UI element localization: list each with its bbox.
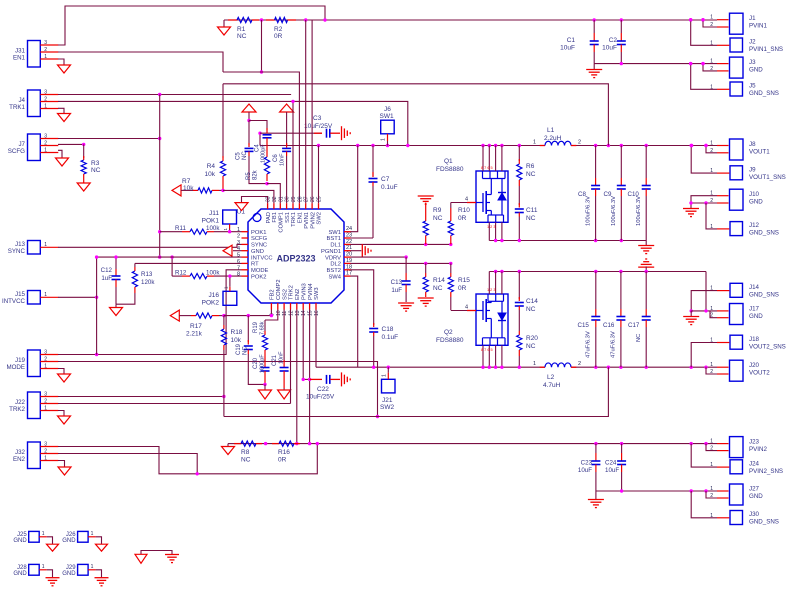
svg-text:1: 1	[710, 439, 713, 445]
svg-text:R7: R7	[182, 178, 191, 185]
svg-text:R5: R5	[246, 172, 252, 180]
svg-text:NC: NC	[243, 346, 249, 355]
svg-text:PVIN2_SNS: PVIN2_SNS	[749, 468, 783, 475]
svg-text:FDS8880: FDS8880	[436, 166, 464, 173]
GND1 bus	[489, 240, 646, 242]
wire PAD ground dogleg	[242, 197, 268, 204]
wire BST2 row to C18	[351, 270, 374, 325]
earth at GND1 bus end	[645, 241, 647, 246]
capacitor C20 (1000pF)	[264, 354, 266, 368]
svg-text:J27: J27	[749, 486, 760, 493]
svg-text:2.2uH: 2.2uH	[544, 135, 562, 142]
svg-text:1: 1	[237, 227, 240, 233]
svg-text:J8: J8	[749, 141, 756, 148]
ground J4.1	[58, 108, 64, 113]
svg-text:POK2: POK2	[251, 274, 266, 280]
svg-text:4: 4	[237, 246, 240, 252]
svg-text:4: 4	[465, 197, 468, 203]
svg-text:C3: C3	[313, 115, 322, 122]
svg-text:16: 16	[314, 310, 320, 316]
svg-text:2.21k: 2.21k	[186, 331, 203, 338]
resistor R6 (NC)	[518, 146, 520, 162]
earth at J17	[690, 311, 692, 316]
Q1 gate wire with pin 4	[451, 202, 467, 204]
wire RT row	[135, 262, 242, 264]
svg-text:FDS8880: FDS8880	[436, 337, 464, 344]
svg-text:SW1: SW1	[328, 230, 341, 236]
svg-text:R8: R8	[241, 449, 250, 456]
svg-text:29: 29	[291, 196, 297, 202]
resistor R1 (NC)	[228, 19, 237, 21]
wire J22.3 to FB2 node	[58, 396, 224, 398]
wire TRK2 riser	[290, 310, 292, 404]
connector J17 (GND)	[730, 304, 744, 325]
svg-text:J13: J13	[15, 241, 26, 248]
U1 top pin stubs	[267, 203, 269, 209]
svg-text:1: 1	[710, 362, 713, 368]
svg-text:1: 1	[710, 486, 713, 492]
ground below C12	[115, 304, 117, 307]
svg-text:10uF/25V: 10uF/25V	[306, 394, 335, 401]
svg-text:INTVCC: INTVCC	[251, 255, 273, 261]
connector J29 (GND)	[78, 564, 89, 575]
wire SCFG riser x160	[159, 95, 161, 258]
svg-text:PAD: PAD	[266, 212, 272, 224]
svg-text:R15: R15	[458, 277, 470, 284]
svg-text:1 2 3: 1 2 3	[487, 225, 495, 229]
svg-text:47uF/6.3V: 47uF/6.3V	[611, 331, 617, 358]
svg-text:J6: J6	[384, 106, 391, 113]
svg-text:1: 1	[710, 15, 713, 21]
svg-text:NC: NC	[237, 33, 247, 40]
svg-text:1uF: 1uF	[101, 275, 112, 282]
svg-text:PVIN1: PVIN1	[749, 23, 767, 30]
svg-text:PVIN4: PVIN4	[308, 282, 314, 300]
svg-text:SS2: SS2	[282, 289, 288, 300]
ground below R3	[77, 183, 90, 191]
svg-text:0R: 0R	[274, 33, 283, 40]
svg-text:10: 10	[276, 310, 282, 316]
svg-text:J12: J12	[749, 222, 760, 229]
ground at PAD	[235, 203, 248, 211]
svg-text:30: 30	[285, 196, 291, 202]
wire EN2 riser	[296, 310, 298, 444]
svg-text:C15: C15	[578, 322, 590, 329]
PVIN1 rail	[224, 19, 717, 21]
capacitor C2 (10uF)	[620, 20, 622, 33]
svg-text:3: 3	[44, 89, 47, 95]
svg-text:24: 24	[346, 226, 352, 232]
svg-text:TRK2: TRK2	[289, 285, 295, 300]
resistor R12 (100k)	[172, 275, 182, 277]
svg-text:8 7 6 5: 8 7 6 5	[481, 166, 493, 170]
op-amp U1 ADP2323 regulator IC body	[248, 209, 344, 303]
capacitor C21 (10nF)	[283, 310, 285, 363]
svg-text:J31: J31	[15, 47, 26, 54]
resistor R5 (82k)	[266, 143, 268, 157]
svg-text:6: 6	[237, 259, 240, 265]
svg-text:SW4: SW4	[328, 274, 341, 280]
capacitor C19 (NC)	[247, 316, 249, 342]
connector J4 (TRK1)	[28, 90, 41, 117]
connector J19 (MODE)	[28, 350, 41, 377]
svg-text:GND: GND	[749, 313, 763, 320]
capacitor C9 (100uF/6.3V)	[620, 146, 622, 179]
svg-text:R3: R3	[91, 160, 100, 167]
svg-text:GND: GND	[749, 67, 763, 74]
capacitor C6 (10nF)	[286, 112, 288, 146]
connector J21 (SW2)	[382, 379, 396, 393]
svg-text:ADP2323: ADP2323	[276, 254, 315, 264]
wire INTVCC to R12 riser	[171, 257, 173, 276]
svg-text:1: 1	[44, 292, 47, 298]
svg-text:L2: L2	[547, 374, 555, 381]
svg-text:NC: NC	[636, 334, 642, 342]
wire SW4 riser	[351, 276, 358, 367]
wire J31.2 EN1 net	[58, 52, 223, 72]
resistor R8 (NC)	[234, 443, 241, 445]
svg-text:10k: 10k	[231, 337, 242, 344]
resistor R9 (NC) with earth above	[418, 195, 434, 197]
svg-text:J3: J3	[749, 59, 756, 66]
svg-text:3: 3	[237, 240, 240, 246]
svg-text:NC: NC	[433, 215, 443, 222]
svg-text:R1: R1	[237, 26, 246, 33]
svg-text:C23: C23	[581, 460, 593, 467]
svg-text:J22: J22	[15, 399, 26, 406]
svg-text:EN2: EN2	[13, 456, 26, 463]
svg-text:J7: J7	[18, 141, 25, 148]
wire DL1 row	[351, 243, 451, 245]
connector J32 (EN2)	[28, 442, 41, 469]
capacitor C3 (10uF/25V) with chassis ground	[259, 133, 261, 145]
svg-text:1: 1	[381, 138, 387, 141]
svg-text:J20: J20	[749, 362, 760, 369]
svg-text:BST2: BST2	[327, 268, 342, 274]
svg-text:GND: GND	[13, 538, 27, 544]
svg-text:26: 26	[310, 196, 316, 202]
connector J24 (PVIN2_SNS)	[730, 460, 743, 474]
svg-text:RT: RT	[251, 262, 259, 268]
svg-text:SS1: SS1	[285, 212, 291, 223]
svg-text:1uF: 1uF	[391, 287, 402, 294]
connector J9 (VOUT1_SNS)	[730, 166, 743, 180]
svg-text:1: 1	[44, 147, 47, 153]
svg-text:GND: GND	[13, 571, 27, 577]
capacitor C16 (47uF/6.3V)	[620, 272, 622, 310]
svg-text:15: 15	[308, 310, 314, 316]
svg-text:5: 5	[237, 253, 240, 259]
wire J32.2	[58, 454, 197, 474]
svg-text:J15: J15	[15, 291, 26, 298]
svg-text:J24: J24	[749, 461, 760, 468]
svg-text:8: 8	[237, 272, 240, 278]
svg-text:NC: NC	[526, 215, 536, 222]
svg-text:POK1: POK1	[202, 218, 220, 225]
svg-text:R11: R11	[175, 225, 186, 232]
svg-text:SW1: SW1	[380, 113, 394, 120]
ground at R1 left	[223, 20, 225, 27]
connector J26 (GND)	[78, 531, 89, 542]
svg-text:100k: 100k	[206, 225, 220, 232]
svg-text:47uF/6.3V: 47uF/6.3V	[586, 331, 592, 358]
U1 bottom pin stubs	[270, 303, 272, 310]
svg-text:R2: R2	[274, 26, 283, 33]
connector J12 (GND_SNS)	[730, 222, 743, 236]
wire J4.3 bus to TRK1 riser	[58, 94, 291, 96]
svg-text:1: 1	[710, 59, 713, 65]
ground J22.1	[58, 411, 64, 417]
svg-text:C12: C12	[101, 267, 113, 274]
connector J30 (GND_SNS)	[730, 511, 743, 525]
VOUT1 sense bus	[223, 84, 608, 146]
svg-text:NC: NC	[241, 457, 251, 464]
svg-text:27: 27	[304, 196, 310, 202]
svg-text:MODE: MODE	[251, 268, 269, 274]
svg-text:C7: C7	[381, 176, 390, 183]
svg-text:C2: C2	[609, 37, 618, 44]
svg-text:1: 1	[91, 564, 94, 570]
capacitor C7 (0.1uF) SW1-BST1	[372, 146, 374, 177]
wire BST1 row	[351, 237, 374, 239]
wire J3.2 dogleg	[703, 64, 717, 71]
svg-text:1: 1	[44, 54, 47, 60]
U1 left pin stubs	[242, 231, 249, 233]
svg-text:SCFG: SCFG	[8, 148, 25, 155]
svg-text:J17: J17	[749, 306, 760, 313]
svg-text:SCFG: SCFG	[251, 236, 268, 242]
resistor R20 (NC)	[518, 310, 520, 331]
svg-text:2: 2	[237, 234, 240, 240]
wire J5.1	[691, 64, 717, 90]
svg-text:7.68k: 7.68k	[260, 321, 266, 335]
capacitor C15 (47uF/6.3V)	[595, 272, 597, 310]
earth below R14	[418, 297, 434, 299]
svg-text:J4: J4	[18, 97, 25, 104]
earth below C23	[595, 491, 597, 499]
capacitor C11 (NC)	[518, 186, 520, 205]
svg-text:C19: C19	[236, 343, 242, 355]
svg-text:TRK2: TRK2	[9, 406, 25, 413]
svg-text:DL1: DL1	[330, 243, 341, 249]
svg-text:0R: 0R	[278, 457, 287, 464]
svg-text:C17: C17	[628, 322, 640, 329]
svg-text:J30: J30	[749, 511, 760, 518]
svg-text:NC: NC	[526, 343, 536, 350]
svg-text:14: 14	[301, 310, 307, 316]
svg-text:PVIN3: PVIN3	[301, 283, 307, 300]
resistor R16 (0R)	[272, 443, 279, 445]
svg-text:28: 28	[297, 196, 303, 202]
wire R1-R2 junction drop to EN1 bus	[261, 20, 263, 72]
svg-text:VOUT2: VOUT2	[749, 370, 770, 377]
svg-text:INTVCC: INTVCC	[2, 298, 26, 305]
svg-text:2: 2	[44, 96, 47, 102]
svg-text:R17: R17	[190, 323, 202, 330]
connector J2 (PVIN1_SNS)	[730, 38, 743, 52]
svg-text:J16: J16	[209, 292, 220, 299]
svg-text:PVIN1: PVIN1	[304, 212, 310, 229]
capacitor C24 (10uF)	[621, 444, 623, 453]
svg-text:1: 1	[710, 141, 713, 147]
svg-text:1000pF: 1000pF	[261, 144, 267, 163]
wire J8.2 dogleg	[706, 146, 717, 153]
resistor R11 (100k)	[158, 230, 161, 233]
svg-text:100k: 100k	[206, 269, 220, 276]
wire PVIN1 riser	[305, 20, 307, 203]
ground at R8 left	[228, 443, 234, 445]
svg-text:R19: R19	[253, 321, 259, 333]
wire VDRV row	[351, 256, 407, 258]
INTVCC bus	[97, 256, 242, 258]
connector J16 (POK2)	[223, 291, 237, 305]
U1 right pin stubs	[344, 231, 351, 233]
svg-text:2: 2	[578, 140, 581, 146]
resistor R3 (NC)	[83, 144, 85, 158]
svg-text:COMP1: COMP1	[279, 212, 285, 233]
svg-text:GND_SNS: GND_SNS	[749, 230, 779, 237]
wire SW2 riser	[318, 146, 320, 204]
capacitor C4 (1000pF)	[249, 121, 267, 131]
svg-text:2: 2	[44, 140, 47, 146]
node FB2	[222, 314, 225, 317]
power arrow INTVCC 2	[280, 104, 294, 112]
Q2 drain pins to SW2 bus	[482, 345, 484, 367]
capacitor C18 (0.1uF) BST2	[373, 323, 375, 327]
connector J10 (GND) with earth	[730, 189, 744, 210]
connector J18 (VOUT2_SNS)	[730, 335, 743, 349]
svg-text:3: 3	[44, 441, 47, 447]
svg-text:10uF/25V: 10uF/25V	[304, 123, 333, 130]
svg-text:FB1: FB1	[272, 212, 278, 223]
svg-text:7: 7	[237, 265, 240, 271]
svg-text:10uF: 10uF	[578, 467, 592, 474]
svg-text:2: 2	[44, 448, 47, 454]
svg-text:J18: J18	[749, 336, 760, 343]
svg-text:PVIN1_SNS: PVIN1_SNS	[749, 46, 783, 53]
GND2 rail bottom	[596, 490, 717, 492]
GND2 bus	[489, 271, 706, 273]
svg-text:Q1: Q1	[444, 158, 453, 165]
wire PVIN2 riser	[311, 20, 313, 203]
svg-text:8 7 6 5: 8 7 6 5	[481, 348, 493, 352]
svg-text:J21: J21	[382, 397, 393, 404]
svg-text:C21: C21	[272, 354, 278, 366]
svg-text:EN1: EN1	[13, 54, 26, 61]
svg-text:10uF: 10uF	[602, 45, 617, 52]
SW2/VOUT2 bus	[316, 366, 545, 368]
svg-text:J11: J11	[209, 210, 219, 217]
Q1 source pins to GND bus	[488, 222, 490, 240]
capacitor C23 (10uF)	[595, 444, 597, 453]
ground J19.1	[58, 369, 64, 375]
wire J31.3 to PVIN rail	[58, 6, 325, 45]
svg-text:J32: J32	[15, 449, 26, 456]
resistor R7 (10k) with arrow	[172, 185, 181, 196]
connector J31 (EN1)	[28, 41, 41, 68]
wire J22.2 TRK2 bus	[58, 403, 291, 405]
connector J27 (GND)	[730, 484, 744, 505]
connector J3 (GND)	[730, 57, 744, 78]
wire J9.1	[691, 146, 717, 174]
svg-text:GND: GND	[62, 571, 76, 577]
svg-text:EN1: EN1	[298, 212, 304, 223]
svg-text:10k: 10k	[183, 185, 194, 192]
svg-text:1: 1	[44, 455, 47, 461]
svg-text:C20: C20	[253, 357, 259, 369]
svg-text:3: 3	[44, 349, 47, 355]
mosfet Q1 (FDS8880)	[476, 171, 508, 222]
svg-text:J10: J10	[749, 191, 760, 198]
svg-text:1: 1	[533, 361, 536, 367]
wire J1.2 dogleg	[703, 20, 717, 27]
wire J19.3 to MODE riser	[58, 270, 242, 355]
svg-text:13: 13	[295, 310, 301, 316]
svg-text:32: 32	[272, 196, 278, 202]
svg-text:1: 1	[44, 405, 47, 411]
chassis ground at PGND1	[351, 250, 362, 252]
svg-text:R9: R9	[433, 207, 442, 214]
wire J4.2 bus to SW1 node	[58, 101, 408, 145]
ground J7.1	[58, 150, 62, 158]
svg-text:GND_SNS: GND_SNS	[749, 519, 779, 526]
svg-text:BST1: BST1	[327, 236, 342, 242]
inverted earth on GND2 bus	[645, 258, 647, 260]
wire INTVCC riser	[96, 257, 98, 354]
resistor R2 (0R)	[266, 19, 275, 21]
svg-text:4: 4	[465, 305, 468, 311]
svg-text:PVIN2: PVIN2	[749, 446, 767, 453]
connector J6 (SW1)	[381, 120, 395, 134]
svg-text:1: 1	[42, 564, 45, 570]
connector J15 (INTVCC)	[28, 291, 41, 305]
svg-text:10nF: 10nF	[280, 153, 286, 166]
inductor L1 (2.2uH)	[540, 145, 545, 147]
svg-text:10nF: 10nF	[279, 351, 285, 364]
svg-text:DL2: DL2	[330, 262, 341, 268]
svg-text:1: 1	[44, 363, 47, 369]
svg-text:1: 1	[42, 531, 45, 537]
svg-text:0R: 0R	[458, 215, 467, 222]
connector J13 (SYNC)	[28, 241, 41, 255]
svg-text:3: 3	[44, 133, 47, 139]
svg-text:R12: R12	[175, 269, 187, 276]
svg-text:C5: C5	[236, 152, 242, 160]
svg-text:3: 3	[44, 40, 47, 46]
svg-text:82k: 82k	[253, 169, 259, 180]
earth at J10	[683, 208, 699, 210]
svg-text:1: 1	[44, 103, 47, 109]
svg-text:C11: C11	[526, 207, 538, 214]
Q2 gate wire with pin 4	[451, 310, 467, 312]
connector J25 (GND)	[29, 531, 40, 542]
power arrow INTVCC 1	[242, 104, 256, 112]
earth ground below C1	[593, 64, 595, 69]
GND rail top right	[594, 63, 717, 65]
wire J19.2	[58, 362, 378, 417]
svg-text:2: 2	[578, 361, 581, 367]
resistor R14 (NC)	[425, 263, 427, 273]
svg-text:VOUT2_SNS: VOUT2_SNS	[749, 344, 786, 351]
resistor R17 (2.21k) with arrow	[170, 310, 179, 321]
svg-text:23: 23	[346, 233, 352, 239]
wire SW3 riser	[315, 310, 317, 368]
wire TRK1 riser	[292, 101, 294, 203]
Q2 source pins to GND2 bus	[488, 272, 490, 295]
connector J20 (VOUT2)	[730, 360, 744, 381]
svg-text:1: 1	[382, 374, 388, 377]
svg-text:1: 1	[533, 140, 536, 146]
